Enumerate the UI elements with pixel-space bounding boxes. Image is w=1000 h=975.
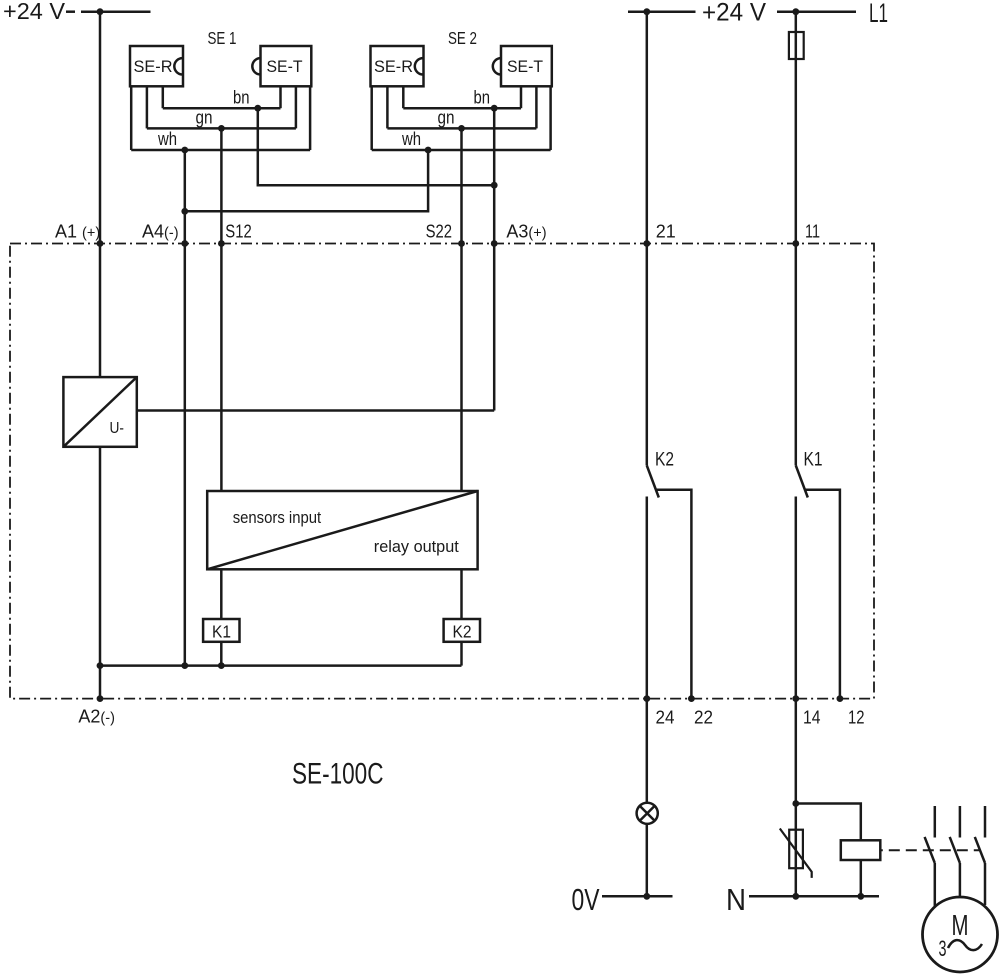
wire coil to N	[860, 860, 863, 896]
svg-text:sensors input: sensors input	[233, 508, 322, 527]
svg-text:SE-T: SE-T	[507, 57, 543, 76]
svg-text:relay output: relay output	[374, 537, 459, 556]
svg-text:22: 22	[694, 708, 713, 728]
junction bottom rail at A4	[181, 662, 188, 669]
wire SE2 gn stem SE-T	[535, 86, 538, 128]
svg-text:SE-T: SE-T	[267, 57, 303, 76]
contact main pole 3	[975, 806, 985, 905]
svg-text:S12: S12	[225, 222, 251, 242]
junction SE1 wh	[181, 147, 188, 154]
terminal A2	[78, 695, 115, 726]
fuse F1	[789, 32, 804, 59]
relay coil K2	[444, 619, 480, 642]
svg-text:N: N	[726, 882, 746, 917]
logic box sensors input / relay output	[207, 491, 477, 569]
junction SE1 bn	[254, 105, 261, 112]
wire SE2 wh right drop	[549, 86, 552, 150]
junction top-right rail	[643, 8, 650, 15]
wire top-left +24V rail	[81, 10, 151, 13]
svg-text:14: 14	[803, 708, 821, 728]
svg-text:3: 3	[939, 936, 947, 961]
relay coil K1	[203, 619, 239, 642]
wire A1 into U- box	[99, 244, 102, 378]
converter U- box	[63, 377, 136, 447]
svg-text:+24 V: +24 V	[3, 0, 66, 24]
svg-text:24: 24	[656, 708, 675, 728]
wire 21 feeder vertical	[646, 12, 649, 244]
wire SE1 wh right drop	[309, 86, 312, 150]
junction bottom rail at A1	[97, 662, 104, 669]
junction contactor branch	[792, 800, 799, 807]
svg-text:K1: K1	[804, 450, 823, 471]
wire SE1 wh left drop	[130, 86, 133, 150]
svg-text:K2: K2	[453, 622, 472, 642]
junction SE2 wh	[425, 147, 432, 154]
wire A3 vertical	[493, 108, 496, 410]
svg-text:12: 12	[848, 708, 865, 728]
wire branch to coil	[796, 804, 861, 841]
wire 11 to K1 contact	[795, 244, 798, 466]
wire SE1 bn drop to A3 link	[258, 108, 494, 185]
junction wh link at A4	[181, 208, 188, 215]
wire K1 NC branch to 12	[805, 490, 840, 699]
wire SE1 bn line	[163, 107, 281, 110]
junction L1 rail	[792, 8, 799, 15]
enclosure dashed box SE-100C	[10, 244, 874, 699]
wire U- box output down	[99, 447, 102, 666]
svg-text:bn: bn	[233, 88, 250, 108]
terminal 14	[792, 695, 820, 727]
wire K2 NC branch to 22	[656, 490, 691, 699]
wire N rail	[749, 895, 879, 898]
wire S22 box bottom to K2 coil	[460, 569, 463, 619]
svg-text:A1 (+): A1 (+)	[55, 222, 100, 242]
terminal A3	[491, 222, 547, 247]
wire SE2 gn line	[387, 127, 536, 130]
svg-text:A4(-): A4(-)	[142, 222, 179, 242]
terminal S12	[218, 222, 252, 247]
wire K1 coil to bottom rail	[220, 642, 223, 666]
contact K2 blade	[647, 466, 659, 498]
wire K2 contact to 24	[646, 497, 649, 699]
wire SE1 bn stem SE-R	[162, 86, 165, 108]
terminal S22	[426, 222, 465, 247]
wire SE2 wh left drop	[370, 86, 373, 150]
wire lamp to 0V	[646, 824, 649, 897]
wire 14 down to contactor branch	[795, 699, 798, 897]
wire SE1 gn line	[147, 127, 296, 130]
wire SE2 bn stem SE-T	[520, 86, 523, 108]
svg-text:SE 1: SE 1	[208, 28, 237, 48]
wire bottom minus rail	[100, 664, 462, 667]
wire L1 rail	[777, 10, 856, 13]
contactor coil K1M	[841, 840, 881, 860]
junction bottom rail at K1	[218, 662, 225, 669]
node +24V left label	[3, 0, 75, 24]
wire S12 box bottom to K1 coil	[220, 569, 223, 619]
wire A2 stub	[99, 666, 102, 699]
svg-text:K2: K2	[655, 450, 674, 471]
terminal 24	[643, 695, 674, 727]
terminal 12	[837, 695, 865, 727]
svg-text:K1: K1	[212, 622, 231, 642]
svg-text:gn: gn	[196, 108, 213, 128]
junction SE2 gn	[458, 125, 465, 132]
svg-text:SE-100C: SE-100C	[292, 758, 384, 791]
junction SE2 bn	[491, 105, 498, 112]
svg-text:A3(+): A3(+)	[506, 222, 546, 242]
wire SE1 gn stem SE-R	[146, 86, 149, 128]
sensor SE-R box (SE1)	[130, 46, 183, 86]
wire 21 to K2 contact	[646, 244, 649, 466]
motor M1	[923, 897, 998, 972]
contact K1 blade	[796, 466, 808, 498]
junction top-left rail	[97, 8, 104, 15]
thermistor RT	[780, 829, 812, 878]
contact main pole 1	[925, 806, 935, 907]
wire S22 vertical	[460, 128, 463, 491]
svg-text:+24 V: +24 V	[702, 0, 766, 27]
wire fuse feeder vertical	[795, 12, 798, 244]
wire 0V rail	[602, 895, 673, 898]
svg-text:M: M	[952, 910, 969, 942]
svg-text:L1: L1	[869, 0, 888, 28]
terminal 11	[792, 222, 820, 247]
wire K1 contact to 14	[795, 497, 798, 699]
svg-text:11: 11	[805, 222, 820, 242]
svg-text:wh: wh	[157, 129, 177, 149]
junction coil at N	[857, 893, 864, 900]
sensor SE-T box (SE1)	[252, 46, 311, 86]
wire SE1 wh line	[131, 149, 310, 152]
svg-text:SE-R: SE-R	[374, 57, 413, 76]
wire SE2 gn stem SE-R	[386, 86, 389, 128]
svg-text:21: 21	[656, 222, 676, 242]
wire top-right +24V rail	[628, 10, 696, 13]
wire A1 supply vertical	[99, 12, 102, 244]
wire U- box to A3 horizontal	[137, 409, 494, 412]
contact main pole 2	[950, 806, 960, 897]
sensor SE-R box (SE2)	[371, 46, 424, 86]
terminal 22	[688, 695, 713, 727]
junction lamp at 0V	[643, 893, 650, 900]
junction bn link at A3	[491, 182, 498, 189]
terminal A4	[142, 222, 188, 247]
junction thermistor at N	[792, 893, 799, 900]
svg-text:A2(-): A2(-)	[78, 707, 115, 727]
junction SE1 gn	[218, 125, 225, 132]
wire K2 coil to bottom rail	[460, 642, 463, 666]
wire SE2 wh drop to A4 link	[185, 150, 428, 211]
wire SE2 bn line	[403, 107, 521, 110]
svg-text:gn: gn	[438, 108, 455, 128]
svg-text:wh: wh	[401, 129, 421, 149]
terminal A1	[55, 222, 103, 247]
sensor SE-T box (SE2)	[493, 46, 552, 86]
wire SE1 bn stem SE-T	[279, 86, 282, 108]
wire S12 vertical	[220, 128, 223, 491]
svg-text:S22: S22	[426, 222, 452, 242]
terminal 21	[643, 222, 675, 247]
lamp H1	[637, 803, 658, 824]
svg-text:SE-R: SE-R	[134, 57, 173, 76]
svg-text:0V: 0V	[572, 882, 600, 917]
wire mechanical link dashed	[880, 849, 981, 851]
wire SE1 gn stem SE-T	[295, 86, 298, 128]
svg-text:U-: U-	[110, 420, 125, 437]
wire A4 vertical	[184, 150, 187, 666]
wire 24 to lamp	[646, 699, 649, 803]
svg-text:SE 2: SE 2	[448, 28, 477, 48]
wire SE2 wh line	[372, 149, 551, 152]
svg-text:bn: bn	[474, 88, 491, 108]
wire SE2 bn stem SE-R	[402, 86, 405, 108]
